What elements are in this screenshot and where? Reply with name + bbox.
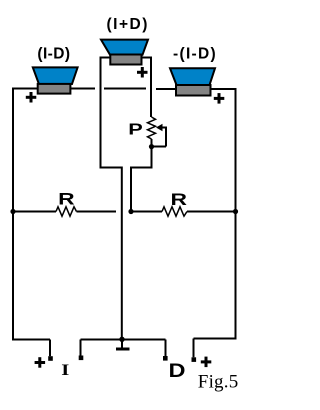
wire top left horizontal	[13, 88, 96, 90]
enclosure box left edge wire	[100, 57, 102, 169]
svg-text:I: I	[61, 362, 69, 379]
wire R2 left lead	[131, 211, 162, 213]
wire terminal 2 stub	[80, 340, 82, 356]
wire box bottom right L	[131, 168, 152, 212]
plus mark speaker LS3	[214, 93, 225, 104]
speaker LS2 magnet	[110, 55, 141, 65]
wire right rail	[235, 88, 237, 340]
svg-text:(I+D): (I+D)	[107, 16, 149, 33]
svg-text:-(I-D): -(I-D)	[173, 46, 217, 63]
speaker LS3 -(I-D) cone	[170, 68, 215, 85]
ground bar	[116, 348, 130, 351]
potentiometer P wiper arrow	[156, 124, 163, 131]
svg-text:Fig.5: Fig.5	[198, 372, 239, 393]
wire box bottom left L	[101, 168, 122, 341]
wire wiper horizontal	[161, 127, 166, 129]
plus mark input D	[201, 357, 212, 368]
svg-text:P: P	[128, 122, 143, 139]
wire bottom left horizontal	[13, 339, 51, 341]
potentiometer P zigzag	[148, 117, 156, 139]
wire bottom center horizontal	[81, 339, 166, 341]
wire pot bottom	[151, 139, 153, 169]
svg-text:R: R	[171, 190, 188, 209]
svg-text:D: D	[169, 361, 186, 382]
resistor R1 zigzag	[56, 207, 77, 216]
wire top right horizontal	[156, 88, 237, 90]
junction ground node	[119, 337, 124, 342]
wire wiper return	[152, 146, 167, 148]
wire terminal 4 stub	[193, 339, 195, 358]
junction wiper node	[149, 144, 154, 149]
plus mark input I	[35, 357, 46, 368]
wire R1 right lead	[77, 211, 117, 213]
enclosure box right edge wire	[150, 57, 152, 118]
wire terminal 1 stub	[49, 340, 51, 357]
wire R2 right lead	[187, 211, 236, 213]
speaker LS2 (I+D) cone	[101, 40, 148, 55]
plus mark speaker LS2	[137, 67, 148, 78]
wire terminal 3 stub	[165, 340, 167, 357]
terminal 2 pad	[79, 356, 84, 361]
terminal 4 pad	[192, 357, 197, 362]
junction left rail node	[10, 209, 15, 214]
wire wiper vertical	[165, 127, 167, 147]
terminal 3 pad	[163, 356, 168, 361]
svg-text:(I-D): (I-D)	[37, 46, 70, 63]
svg-text:R: R	[58, 189, 74, 208]
terminal 1 pad	[48, 356, 53, 361]
junction center node	[128, 209, 133, 214]
wire left rail	[12, 88, 14, 341]
speaker LS1 (I-D) cone	[33, 67, 78, 84]
wire R1 left lead	[13, 211, 56, 213]
resistor R2 zigzag	[162, 207, 187, 216]
speaker LS1 magnet	[38, 84, 71, 94]
junction right rail node	[233, 209, 238, 214]
plus mark speaker LS1	[26, 92, 37, 103]
enclosure box top edge	[100, 57, 153, 59]
wire bottom right horizontal	[194, 338, 237, 340]
wire top middle horizontal	[104, 88, 146, 90]
speaker LS3 magnet	[176, 85, 211, 96]
ground stub	[121, 340, 123, 348]
